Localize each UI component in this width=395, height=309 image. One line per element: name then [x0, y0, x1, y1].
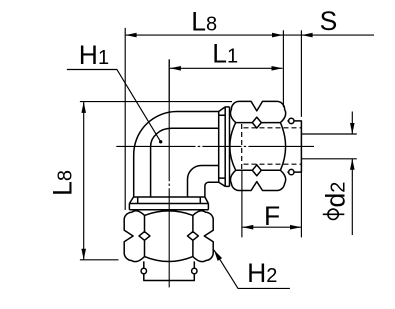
label L8 left (rotated) — [47, 170, 77, 196]
thread end dashed vertical — [241, 124, 243, 170]
dim L8 top line — [126, 34, 283, 36]
ext line nut face — [282, 30, 284, 107]
H2 leader — [214, 250, 290, 289]
bottom flange — [129, 197, 208, 210]
arrow F right — [290, 225, 301, 230]
small S segment — [283, 34, 302, 36]
right stud — [287, 121, 301, 172]
dim S line — [302, 34, 374, 36]
svg-text:S: S — [320, 6, 338, 36]
ext F right / stud face extension — [300, 172, 302, 237]
horizontal centerline right port — [116, 145, 314, 147]
arrow L8 right — [272, 33, 283, 38]
right nut panel lines — [236, 123, 281, 171]
dim L1 line — [170, 67, 283, 69]
dim phi-d2 vertical lower — [351, 159, 353, 235]
right nut diamonds — [252, 117, 261, 176]
ext centerline top — [168, 59, 170, 101]
dim L8 left vertical — [83, 102, 85, 260]
phi symbol — [328, 209, 338, 219]
ext line bottom of nut — [80, 259, 119, 261]
arrow L8left bottom — [81, 249, 86, 260]
ext line L8 left — [124, 28, 126, 210]
arrow phi-d2 up — [350, 159, 355, 170]
arrow H2 — [214, 250, 222, 261]
thread top dashed — [244, 127, 302, 129]
arrow phi-d2 down — [350, 123, 355, 134]
ext F left — [241, 170, 243, 237]
bottom nut outline — [124, 211, 213, 262]
ext line top of nut — [80, 101, 232, 103]
arrow L8left top — [81, 102, 86, 113]
ext line stud tip — [300, 30, 302, 117]
arrow F left — [242, 225, 253, 230]
dim phi-d2 vertical upper — [351, 112, 353, 135]
H1 leader dot — [159, 140, 162, 143]
bottom stud — [144, 261, 195, 280]
right nut outline — [230, 101, 286, 190]
vertical centerline bottom port — [168, 59, 170, 287]
svg-text:F: F — [264, 201, 280, 231]
arrowheads — [81, 33, 354, 261]
label phi-d2 (rotated) — [320, 182, 350, 220]
arrow S — [302, 33, 313, 38]
ext phi-d2 bottom — [302, 158, 357, 160]
centerlines — [116, 59, 314, 287]
dim F line — [242, 226, 301, 228]
bottom stud circles — [141, 268, 146, 273]
ext phi-d2 top — [302, 133, 357, 135]
hidden thread dashed lines — [242, 124, 302, 170]
bottom nut panel lines — [145, 215, 193, 256]
bottom nut diamonds — [139, 232, 198, 241]
right stud circles — [289, 118, 294, 123]
arrow L8 left — [126, 33, 137, 38]
body outline — [134, 112, 219, 198]
thread bottom dashed — [244, 163, 302, 165]
body inner contour — [151, 128, 219, 197]
right flange — [219, 107, 230, 186]
arrow L1 right — [272, 66, 283, 71]
arrow L1 left — [170, 66, 181, 71]
H1 leader — [67, 70, 161, 142]
